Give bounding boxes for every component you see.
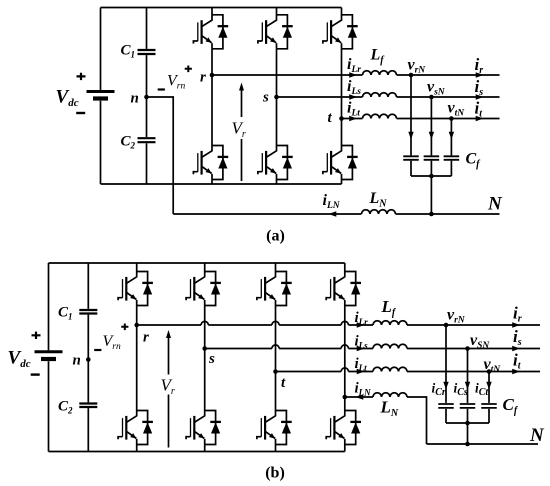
IGBT+diode upper switch leg s (b)	[186, 271, 221, 305]
svg-text:Cf: Cf	[503, 395, 519, 417]
wire: (a) dc-link bus middle	[146, 55, 148, 137]
Vr arrow line upper (b)	[168, 338, 170, 375]
svg-text:Lf: Lf	[381, 297, 397, 319]
svg-text:r: r	[143, 330, 149, 346]
wire: (b) dc-link bus middle	[87, 315, 89, 403]
wire: (a) bottom DC bus	[101, 183, 342, 185]
node s output (b)	[202, 346, 207, 351]
inductor Lf phase r (a)	[363, 71, 397, 75]
arrow ir (a)	[476, 72, 484, 77]
inductor LN (b)	[373, 393, 407, 397]
wire: (b) Cs branch upper	[467, 349, 469, 403]
inductor Lf phase t (b)	[373, 367, 407, 371]
wire: (a) leg s to bottom bus	[276, 180, 278, 185]
IGBT+diode upper switch leg s (a)	[258, 15, 293, 49]
wire: (b) leg s to bottom bus	[204, 445, 206, 452]
node n (a)	[144, 95, 149, 100]
svg-text:s: s	[262, 90, 269, 106]
wire: (b) phase r line after filter	[407, 324, 540, 326]
node N junction (b)	[465, 442, 470, 447]
wire: (a) Cf common bus	[411, 175, 451, 177]
arrow iLN (b)	[356, 394, 364, 399]
wire: (b) phase t line to filter	[276, 371, 374, 373]
Vr arrow line lower (b)	[168, 395, 170, 448]
wire: (b) leg r to bottom bus	[136, 445, 138, 452]
wire: Vdc (b) positive bus	[48, 263, 50, 350]
arrow iCt (b)	[486, 382, 491, 390]
arrow into Cf s (a)	[429, 132, 434, 140]
arrow iLr (a)	[349, 72, 357, 77]
wire: (a) top DC bus	[101, 7, 342, 9]
inductor LN (a)	[362, 210, 396, 214]
node vrN (a)	[409, 73, 414, 78]
IGBT+diode lower switch leg r (b)	[118, 410, 153, 444]
label - of Vrn (a)	[158, 88, 165, 90]
svg-text:ir: ir	[513, 304, 522, 325]
wire: (a) leg r to bottom bus	[211, 180, 213, 185]
wire: (a) leg t from top bus	[341, 8, 343, 15]
wire: (b) neutral to N rail	[407, 397, 427, 444]
svg-text:Vdc: Vdc	[56, 87, 79, 110]
wire: (a) phase t line to filter	[342, 118, 363, 120]
wire: (b) neutral leg line to LN	[345, 396, 373, 398]
svg-text:s: s	[208, 351, 215, 367]
arrow into Cf r (a)	[408, 132, 413, 140]
wire: Vdc (a) positive bus	[100, 8, 102, 91]
wire: (a) Cs branch upper	[430, 97, 432, 155]
node vtN (b)	[487, 369, 492, 374]
capacitor Cf phase s (a)	[424, 156, 440, 160]
inductor Lf phase s (a)	[363, 93, 397, 97]
node neutral junction (a)	[429, 212, 434, 217]
crossover hop phase s over leg at x=344.8 (b)	[341, 345, 348, 349]
node s (a)	[274, 95, 279, 100]
wire: (a) leg s output to lower switch	[276, 97, 278, 146]
wire: (a) leg t to bottom bus	[341, 180, 343, 185]
crossover hop phase r over leg at x=344.8 (b)	[341, 321, 348, 325]
wire: (a) Cr branch upper	[410, 75, 412, 155]
svg-text:C1: C1	[121, 43, 136, 60]
battery Vdc (a) short plate	[93, 96, 108, 100]
IGBT+diode upper switch leg n4 (b)	[326, 271, 361, 305]
arrow iLt (b)	[357, 369, 365, 374]
wire: Vdc (b) negative bus	[48, 361, 50, 451]
wire: (a) leg s to output node	[276, 49, 278, 97]
svg-text:is: is	[475, 77, 484, 98]
arrow into Cf t (a)	[449, 132, 454, 140]
svg-text:Vdc: Vdc	[8, 348, 31, 371]
svg-text:is: is	[513, 327, 522, 348]
IGBT+diode upper switch leg r (a)	[193, 15, 228, 49]
svg-text:t: t	[328, 110, 333, 126]
wire: (b) phase s line after filter	[407, 348, 540, 350]
svg-text:iCr: iCr	[432, 381, 446, 399]
wire: (a) neutral rail left	[173, 213, 361, 215]
svg-text:vsN: vsN	[427, 79, 446, 98]
svg-text:it: it	[475, 98, 484, 119]
inductor Lf phase s (b)	[373, 344, 407, 348]
svg-text:vtN: vtN	[448, 100, 466, 119]
arrow is (a)	[476, 94, 484, 99]
wire: (b) leg n4 from top bus	[344, 263, 346, 272]
IGBT+diode lower switch leg n4 (b)	[326, 410, 361, 444]
wire: (a) star point to neutral	[430, 176, 432, 214]
IGBT+diode upper switch leg t (b)	[257, 271, 292, 305]
svg-text:ir: ir	[475, 55, 484, 76]
IGBT+diode lower switch leg s (b)	[186, 410, 221, 444]
label + of Vdc (b)	[32, 332, 41, 339]
svg-text:LN: LN	[380, 398, 399, 420]
svg-text:n: n	[131, 91, 139, 107]
svg-text:C1: C1	[58, 305, 73, 322]
svg-text:iLt: iLt	[355, 356, 368, 373]
wire: (b) Ct branch lower	[488, 409, 490, 423]
wire: (b) leg n4 to bottom bus	[344, 445, 346, 452]
svg-text:Vrn: Vrn	[103, 333, 121, 352]
battery Vdc (a) long plate	[87, 90, 115, 93]
wire: (a) leg r to output node	[211, 49, 213, 75]
capacitor Cf phase t (a)	[444, 156, 460, 160]
svg-text:(a): (a)	[266, 228, 285, 245]
IGBT+diode lower switch leg t (a)	[323, 145, 358, 179]
crossover hop phase s over leg at x=275.5 (b)	[272, 345, 279, 349]
node vsN (b)	[465, 346, 470, 351]
wire: (b) dc-link bus upper	[87, 263, 89, 309]
wire: (a) phase s line after filter	[397, 96, 500, 98]
wire: (b) leg t output to lower switch	[275, 372, 277, 411]
wire: (b) leg t from top bus	[275, 263, 277, 272]
wire: (b) Ct branch upper	[488, 372, 490, 403]
svg-text:iLr: iLr	[355, 310, 369, 327]
crossover hop phase r over leg at x=204.7 (b)	[201, 321, 208, 325]
crossover hop phase t over leg at x=344.8 (b)	[341, 368, 348, 372]
wire: (b) bottom DC bus	[49, 451, 345, 453]
label + of Vrn (b)	[121, 324, 128, 331]
wire: (a) phase t line after filter	[397, 118, 500, 120]
capacitor Cf phase t (b)	[481, 404, 497, 408]
node r output (b)	[134, 323, 139, 328]
wire: (b) Cs branch lower	[467, 409, 469, 423]
wire: (a) phase s line to filter	[277, 96, 363, 98]
wire: (b) N rail	[427, 443, 539, 445]
Vr arrow line lower (a)	[241, 139, 243, 181]
wire: (b) leg t to output node	[275, 306, 277, 372]
wire: (a) leg s from top bus	[276, 8, 278, 15]
wire: (b) Cr branch upper	[445, 325, 447, 403]
label + of Vrn (a)	[185, 66, 192, 73]
arrow iCr (b)	[443, 382, 448, 390]
battery Vdc (b) short plate	[41, 357, 56, 361]
node Cf star point (b)	[465, 421, 470, 426]
wire: (b) leg r from top bus	[136, 263, 138, 272]
wire: Vdc (a) negative bus	[100, 101, 102, 184]
node t output (b)	[273, 369, 278, 374]
wire: (b) phase s line to filter	[205, 348, 373, 350]
arrow iCs (b)	[465, 382, 470, 390]
svg-text:n: n	[73, 353, 81, 369]
inductor Lf phase r (b)	[373, 321, 407, 325]
svg-text:(b): (b)	[265, 465, 285, 482]
svg-text:Vr: Vr	[161, 376, 175, 398]
Vr arrowhead (a)	[239, 83, 244, 91]
svg-text:Vr: Vr	[232, 119, 246, 141]
wire: (b) dc-link bus lower	[87, 408, 89, 451]
capacitor C1 (a)	[138, 50, 156, 54]
label + of Vdc (a)	[77, 73, 86, 80]
wire: (b) leg s from top bus	[204, 263, 206, 272]
Vr arrowhead (b)	[166, 330, 171, 338]
capacitor C1 (b)	[79, 310, 97, 314]
svg-text:C2: C2	[58, 399, 73, 416]
arrow iLr (b)	[357, 322, 365, 327]
wire: (a) leg t output to lower switch	[341, 119, 343, 146]
node vsN (a)	[429, 95, 434, 100]
capacitor C2 (a)	[138, 138, 156, 142]
capacitor Cf phase r (a)	[403, 156, 419, 160]
IGBT+diode upper switch leg t (a)	[323, 15, 358, 49]
wire: (a) dc-link bus upper	[146, 8, 148, 49]
wire: (b) phase r line to filter	[137, 324, 373, 326]
IGBT+diode lower switch leg s (a)	[258, 145, 293, 179]
wire: (a) Cr branch lower	[410, 161, 412, 176]
wire: (b) top DC bus	[49, 262, 345, 264]
IGBT+diode lower switch leg t (b)	[257, 410, 292, 444]
node r (a)	[210, 73, 215, 78]
svg-text:vrN: vrN	[447, 307, 466, 326]
svg-text:Vrn: Vrn	[167, 73, 185, 92]
capacitor Cf phase s (b)	[460, 404, 476, 408]
node n (b)	[86, 357, 91, 362]
wire: (a) phase r line after filter	[397, 74, 500, 76]
wire: (a) leg r from top bus	[211, 8, 213, 15]
svg-text:iLt: iLt	[347, 100, 360, 119]
svg-text:N: N	[487, 193, 503, 214]
label - of Vdc (a)	[76, 112, 85, 114]
node Cf star point (a)	[429, 174, 434, 179]
svg-text:N: N	[529, 425, 545, 446]
capacitor Cf phase r (b)	[438, 404, 454, 408]
wire: (b) star point to N rail	[467, 423, 469, 444]
wire: (b) phase t line after filter	[407, 371, 540, 373]
svg-text:iLN: iLN	[355, 381, 372, 398]
svg-text:t: t	[281, 375, 286, 391]
svg-text:vSN: vSN	[470, 332, 490, 351]
svg-text:r: r	[200, 70, 206, 86]
inductor Lf phase t (a)	[363, 114, 397, 118]
label - of Vdc (b)	[31, 373, 40, 375]
arrow iLs (b)	[357, 346, 365, 351]
arrow is (b)	[512, 346, 520, 351]
arrow iLt (a)	[349, 116, 357, 121]
wire: (b) Cf common bus	[446, 422, 489, 424]
svg-text:iLr: iLr	[347, 56, 361, 75]
svg-text:iLs: iLs	[355, 334, 369, 351]
arrow ir (b)	[512, 322, 520, 327]
svg-text:vtN: vtN	[484, 356, 502, 375]
wire: (b) leg n4 output to lower switch	[344, 397, 346, 411]
svg-text:iLs: iLs	[347, 78, 361, 97]
Vr arrow line upper (a)	[241, 90, 243, 117]
svg-text:Lf: Lf	[370, 47, 386, 67]
wire: (a) Ct branch lower	[450, 161, 452, 176]
wire: (b) Cr branch lower	[445, 409, 447, 423]
IGBT+diode upper switch leg r (b)	[118, 271, 153, 305]
node vtN (a)	[449, 116, 454, 121]
node vrN (b)	[444, 323, 449, 328]
wire: (b) leg t to bottom bus	[275, 445, 277, 452]
arrow it (b)	[512, 369, 520, 374]
wire: (a) dc-link bus lower	[146, 143, 148, 184]
arrow it (a)	[476, 116, 484, 121]
wire: (b) leg s output to lower switch	[204, 349, 206, 411]
svg-text:it: it	[513, 351, 522, 372]
wire: (a) leg t to output node	[341, 49, 343, 119]
wire: (b) leg r output to lower switch	[136, 325, 138, 411]
wire: (a) leg r output to lower switch	[211, 75, 213, 146]
battery Vdc (b) long plate	[35, 350, 63, 353]
wire: (a) neutral rail right	[396, 213, 500, 215]
svg-text:C2: C2	[121, 134, 136, 151]
wire: (a) Ct branch upper	[450, 119, 452, 156]
svg-text:Cf: Cf	[466, 151, 482, 171]
label - of Vrn (b)	[94, 349, 101, 351]
wire: (a) Cs branch lower	[430, 161, 432, 176]
wire: (b) leg s to output node	[204, 306, 206, 349]
arrow iLN (a)	[329, 211, 337, 216]
svg-text:vrN: vrN	[408, 57, 427, 76]
svg-text:iLN: iLN	[323, 192, 341, 211]
node t (a)	[339, 116, 344, 121]
IGBT+diode lower switch leg r (a)	[193, 145, 228, 179]
arrow iLs (a)	[349, 94, 357, 99]
wire: (a) phase r line to filter	[212, 74, 363, 76]
wire: from node n to neutral rail (a)	[147, 97, 174, 214]
crossover hop phase r over leg at x=275.5 (b)	[272, 321, 279, 325]
capacitor C2 (b)	[79, 404, 97, 408]
wire: (b) leg n4 to output node	[344, 306, 346, 398]
wire: (b) leg r to output node	[136, 306, 138, 326]
svg-text:LN: LN	[369, 190, 388, 210]
node n4 output (b)	[343, 395, 348, 400]
